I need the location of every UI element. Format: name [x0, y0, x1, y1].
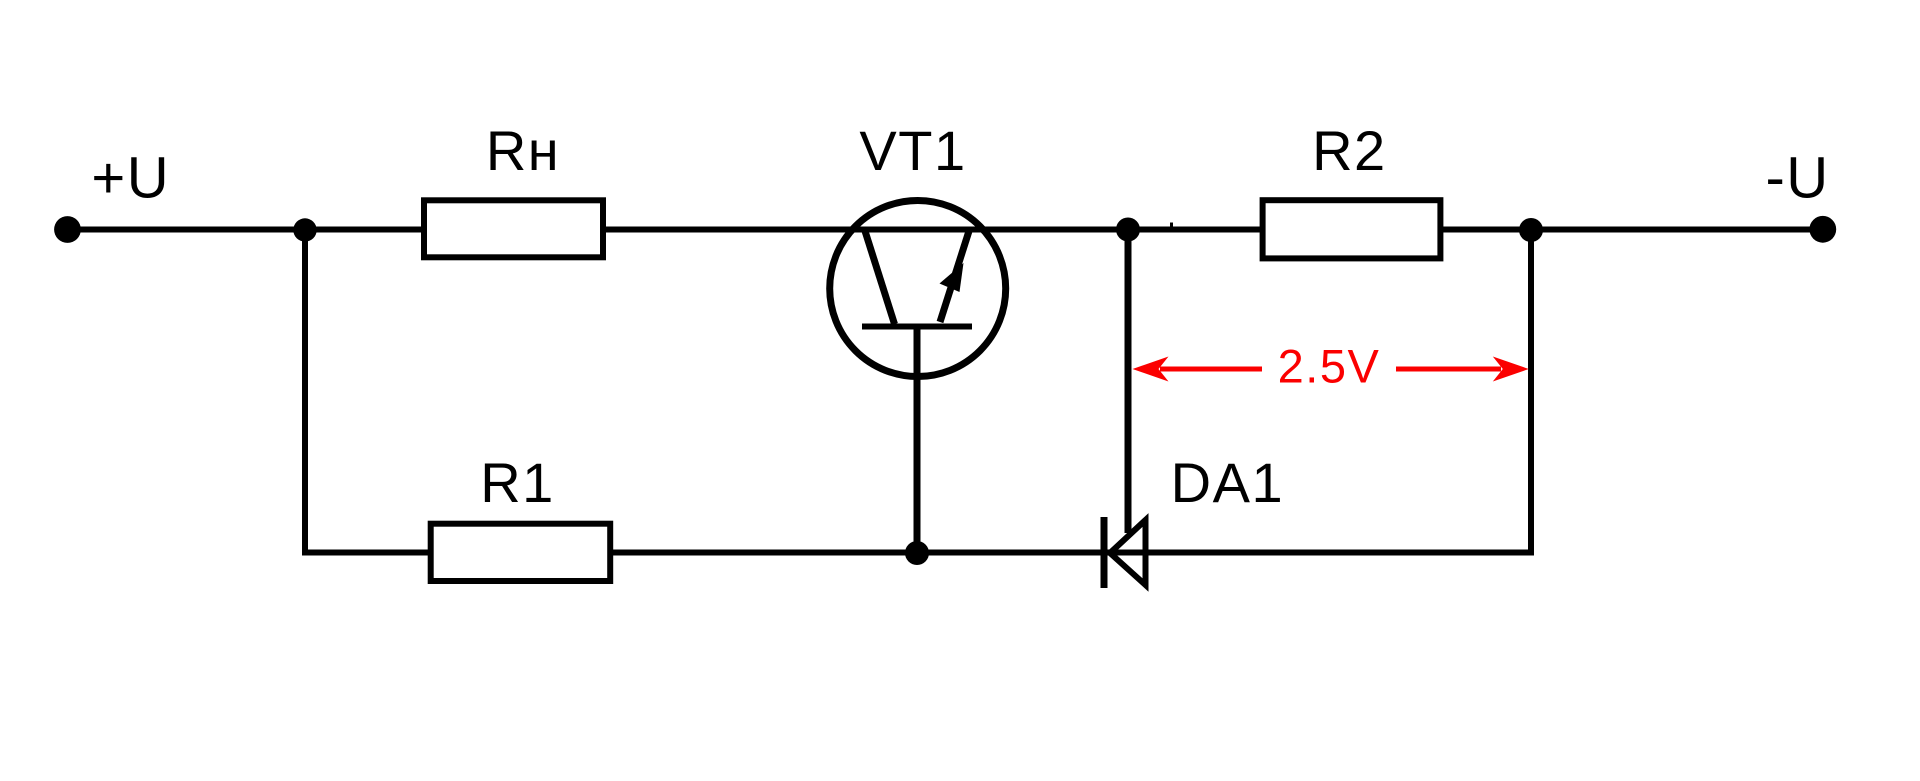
svg-text:R1: R1 [480, 451, 555, 514]
svg-text:+U: +U [91, 146, 170, 211]
svg-text:-U: -U [1765, 146, 1829, 211]
svg-text:Rн: Rн [486, 119, 560, 182]
svg-text:DA1: DA1 [1171, 451, 1284, 514]
svg-text:2.5V: 2.5V [1278, 339, 1381, 392]
svg-text:VT1: VT1 [859, 119, 966, 182]
svg-text:R2: R2 [1312, 119, 1387, 182]
